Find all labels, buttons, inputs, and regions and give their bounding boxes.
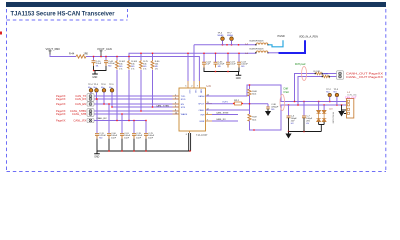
wire cyan PGND — [268, 40, 283, 47]
junction dot esd bus — [303, 131, 304, 132]
capacitor C-91 bottom — [120, 133, 131, 140]
capacitor C-11 bottom — [95, 133, 107, 140]
ground bus bottom — [97, 139, 191, 151]
svg-text:R-2 0R: R-2 0R — [314, 71, 321, 73]
resistor R-69 — [248, 85, 258, 121]
svg-text:GND: GND — [236, 78, 241, 80]
resistor R-3 inline — [322, 74, 331, 78]
svg-text:INH: INH — [201, 114, 205, 116]
junction dots bottom bus — [108, 150, 190, 151]
svg-text:TXD: TXD — [181, 96, 186, 98]
capacitor C-76 bottom — [132, 133, 143, 140]
ferrite bead L-4 — [245, 49, 269, 55]
capacitor C-64 — [202, 61, 212, 67]
svg-text:CANL_STB: CANL_STB — [72, 112, 87, 116]
svg-text:CANL_OUT PageXX: CANL_OUT PageXX — [346, 75, 383, 79]
svg-text:BLM31PG601S: BLM31PG601S — [250, 49, 265, 51]
wire after R0 b — [329, 76, 337, 78]
svg-text:VOUT_6M0: VOUT_6M0 — [46, 47, 61, 51]
port CAN_EN — [56, 102, 94, 106]
svg-text:MD: MD — [218, 66, 222, 68]
svg-text:1%: 1% — [119, 69, 122, 71]
wire CANL route — [206, 105, 347, 130]
svg-text:Mst: Mst — [326, 90, 330, 93]
title bar — [6, 2, 386, 7]
ground bus group B2 — [204, 68, 239, 72]
wire vertical cap B2 to grid — [128, 70, 130, 121]
junction dots bus pair — [288, 101, 342, 106]
wire EN row y104 — [94, 103, 180, 105]
svg-text:1R0: 1R0 — [84, 52, 89, 55]
resistor R-80 — [151, 60, 160, 71]
wire VOUT rail y56.5 — [50, 55, 199, 82]
wire after R0 a — [322, 73, 337, 75]
port CAN_TX / CAN_RX double — [56, 94, 94, 102]
sheet border right dashed — [385, 9, 387, 172]
junction dot gnd A — [93, 70, 94, 71]
capacitor C-44 — [104, 61, 116, 68]
wire blue VDD thick — [268, 40, 305, 53]
capacitor C-79 bottom — [144, 133, 155, 140]
wire RX row y120.5 — [94, 120, 147, 122]
svg-text:PageXX: PageXX — [56, 97, 66, 101]
ESD diode pair U-3 PESD2CAN — [316, 102, 334, 124]
highlight ellipse left pair — [280, 95, 285, 111]
ground symbol GND B2 — [236, 72, 242, 81]
svg-text:PageXX: PageXX — [56, 119, 66, 123]
wire upper rail y53.3 — [129, 53, 256, 56]
left margin red tick — [0, 32, 2, 35]
chassis ground split — [265, 109, 271, 116]
IC left pin stubs — [173, 96, 180, 114]
title underline dashed — [7, 19, 128, 21]
svg-text:PageXX: PageXX — [56, 102, 66, 106]
resistor R-103 — [128, 60, 138, 71]
wire CANH route — [206, 85, 347, 102]
testpoint TP-2 — [326, 89, 331, 102]
connector J-2 — [345, 92, 358, 118]
net flag VOUT_CAN — [97, 47, 112, 57]
sheet background — [0, 0, 400, 182]
resistor R44 — [69, 52, 89, 58]
svg-text:R-3 0R: R-3 0R — [322, 74, 329, 76]
resistor R-68 — [248, 89, 258, 96]
port CANL_STBN / CANL_STB double — [56, 109, 94, 117]
ground symbol GND A — [92, 71, 98, 79]
IC stub label wires — [212, 115, 238, 122]
svg-text:MD: MD — [241, 66, 245, 68]
capacitor C-90 bottom — [107, 133, 118, 140]
wire top rail y44.8 — [194, 45, 256, 81]
svg-text:WAKE: WAKE — [181, 113, 188, 116]
svg-text:VCC: VCC — [188, 90, 190, 95]
wire vertical cap B4 to grid — [152, 70, 154, 107]
title box right dashed edge — [127, 9, 129, 20]
testpoint TP-5 — [94, 84, 99, 100]
svg-text:1%: 1% — [143, 69, 146, 71]
svg-text:CANL_RX: CANL_RX — [216, 118, 226, 121]
svg-text:VIO: VIO — [194, 90, 196, 94]
svg-text:MD: MD — [99, 138, 103, 140]
sheet border bottom dashed — [7, 171, 387, 173]
cap C-7 ground drop — [304, 118, 324, 132]
svg-text:1%: 1% — [155, 69, 158, 71]
svg-text:SPLIT: SPLIT — [198, 103, 205, 105]
svg-text:TJA1153 Secure HS-CAN Transcei: TJA1153 Secure HS-CAN Transceiver — [11, 10, 116, 17]
sheet border left dashed — [6, 9, 8, 172]
capacitor C-38 split — [266, 104, 279, 111]
connector J-2 ground stubs — [342, 105, 347, 114]
svg-text:BLM31PG601S: BLM31PG601S — [250, 41, 265, 43]
svg-text:CAN_RX: CAN_RX — [75, 97, 86, 101]
svg-text:CANL_RX: CANL_RX — [73, 119, 86, 123]
junction dots gnd B2 — [215, 71, 229, 72]
IC top pin numbers — [185, 86, 198, 88]
capacitor C-7 bus — [302, 102, 313, 126]
svg-text:MD: MD — [271, 109, 275, 111]
svg-text:CANH: CANH — [198, 95, 205, 98]
IC top pin names vertical — [188, 90, 202, 95]
diff pair vertical wires to output ports — [295, 74, 323, 106]
port CANL_RX — [56, 118, 94, 122]
testpoint TP-4 — [88, 84, 93, 97]
IC ground double wire — [189, 133, 191, 151]
svg-text:RXD: RXD — [181, 99, 186, 101]
svg-text:STB: STB — [181, 107, 186, 109]
capacitor C-10 — [92, 61, 102, 68]
svg-text:TJA-1153T: TJA-1153T — [196, 134, 208, 137]
svg-text:VDD_IN_A_PDN: VDD_IN_A_PDN — [299, 36, 318, 39]
testpoint TP-8 — [101, 84, 106, 105]
ferrite bead L-2 — [245, 41, 269, 46]
port CANH_OUT CANL_OUT double — [337, 71, 384, 79]
ground symbol GND bottom — [94, 151, 100, 159]
IC bottom pin stub — [189, 131, 191, 133]
resistor R-2 inline — [314, 71, 324, 75]
svg-text:GND: GND — [92, 77, 97, 79]
ground bus group A — [94, 66, 107, 71]
svg-text:Mst: Mst — [334, 90, 338, 93]
svg-text:Pair: Pair — [284, 90, 290, 94]
svg-text:Diff pair: Diff pair — [295, 62, 306, 66]
wire STB row y107 — [112, 106, 179, 108]
svg-text:10nF: 10nF — [111, 138, 116, 140]
wire row y111 — [94, 110, 180, 112]
IC top pin stubs — [188, 81, 199, 88]
chassis ground connector — [338, 110, 345, 117]
svg-text:VOUT_CAN: VOUT_CAN — [97, 47, 112, 51]
svg-text:10nF: 10nF — [148, 138, 153, 140]
junction dots grid — [96, 98, 153, 121]
svg-text:PGND: PGND — [278, 35, 285, 38]
op-amp U-6 TJA1153 IC body — [179, 84, 211, 137]
svg-text:CAN_EN: CAN_EN — [75, 102, 86, 106]
wire cap stubs group B — [117, 53, 153, 60]
junction dots power rail — [93, 44, 240, 57]
wire bottom cap verticals — [97, 99, 146, 133]
svg-text:0.1uF: 0.1uF — [230, 64, 236, 66]
testpoint TP-3 — [334, 89, 339, 105]
chassis ground esd — [285, 132, 291, 139]
testpoint TP-7 — [227, 33, 234, 45]
ground bus esd — [289, 118, 322, 132]
wire SPLIT — [206, 103, 269, 105]
wire TXD row y96 — [94, 95, 180, 97]
capacitor C-65 — [214, 61, 226, 68]
svg-text:CANL_STBN: CANL_STBN — [216, 112, 229, 115]
svg-text:1%: 1% — [131, 69, 134, 71]
svg-text:PageXX: PageXX — [56, 112, 66, 116]
IC right pin stubs — [206, 96, 213, 121]
svg-text:GND: GND — [94, 157, 99, 159]
wire vertical cap B1 to grid — [116, 70, 118, 121]
svg-text:MEAS: MEAS — [227, 34, 234, 37]
wire cap stubs group B2 — [204, 53, 239, 62]
wire row y114 — [94, 113, 180, 115]
svg-text:R-44: R-44 — [69, 52, 75, 55]
wire vertical cap B3 to grid — [140, 70, 142, 111]
svg-text:OUT5: OUT5 — [222, 102, 229, 104]
svg-text:CANL: CANL — [198, 109, 205, 112]
highlight ellipse top pair — [302, 67, 307, 81]
net flag VOUT_6M — [46, 47, 61, 55]
testpoint TP-9 — [109, 84, 114, 108]
IC right pin names — [198, 95, 205, 123]
testpoint TP-6 — [218, 33, 225, 45]
svg-text:PESD2CAN: PESD2CAN — [331, 112, 334, 124]
junction dots termination — [249, 84, 255, 130]
svg-text:10nF: 10nF — [136, 138, 141, 140]
svg-text:CANL_STBN: CANL_STBN — [156, 104, 169, 107]
svg-text:10nF: 10nF — [124, 138, 129, 140]
svg-text:EN: EN — [181, 104, 184, 106]
IC left pin names — [181, 96, 188, 116]
capacitor C-6 bus — [287, 105, 298, 125]
IC left pin numbers — [175, 94, 178, 114]
IC right pin numbers — [207, 94, 210, 121]
svg-text:MD: MD — [108, 66, 112, 68]
signal wires left grid — [94, 96, 180, 133]
jumper WP-2 on split — [233, 100, 243, 105]
resistor R-75 — [140, 60, 149, 71]
svg-text:ERR: ERR — [200, 121, 205, 123]
capacitor C-53 — [237, 61, 249, 68]
svg-text:CANL_RX: CANL_RX — [97, 117, 108, 120]
wire cap stubs group A — [94, 57, 107, 61]
wire IC top pin vcc drop — [187, 53, 189, 81]
wire RXD row y99 — [94, 98, 180, 100]
svg-text:CAN_OUT: CAN_OUT — [345, 96, 357, 99]
resistor R-102 — [116, 60, 126, 71]
svg-text:U-6: U-6 — [207, 84, 212, 88]
capacitor C-67 — [226, 61, 236, 67]
